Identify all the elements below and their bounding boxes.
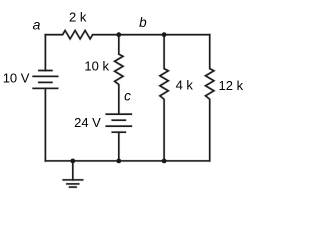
svg-text:12 k: 12 k <box>219 78 244 93</box>
svg-text:c: c <box>124 89 131 104</box>
svg-text:10 V: 10 V <box>3 71 30 86</box>
svg-text:24 V: 24 V <box>74 115 101 130</box>
svg-text:2 k: 2 k <box>69 10 87 25</box>
svg-text:10 k: 10 k <box>84 59 109 74</box>
svg-text:4 k: 4 k <box>176 78 194 93</box>
svg-text:a: a <box>33 16 41 32</box>
svg-text:b: b <box>139 15 147 30</box>
